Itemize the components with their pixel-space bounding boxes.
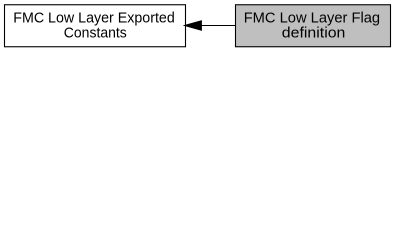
svg-text:definition: definition xyxy=(282,25,346,42)
svg-text:Constants: Constants xyxy=(64,25,127,42)
edge shaft (wire) xyxy=(201,25,236,27)
node: FMC Low Layer Flag definition (grey box) xyxy=(236,5,391,47)
background xyxy=(0,0,395,51)
doxygen group dependency graph xyxy=(0,0,395,51)
node: FMC Low Layer Exported Constants (white box) xyxy=(5,5,186,47)
edge arrowhead pointing left xyxy=(185,21,202,31)
